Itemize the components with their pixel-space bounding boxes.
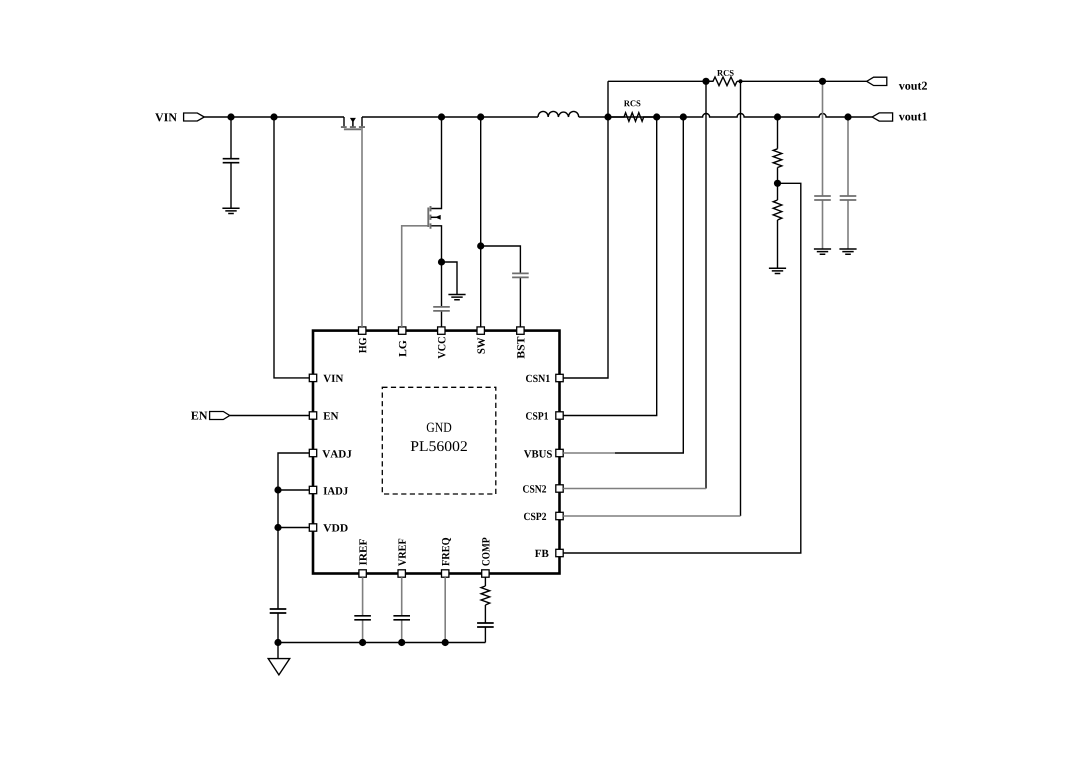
- wire Q2 drain from SW rail: [431, 117, 442, 209]
- node dot inductor output: [604, 113, 611, 120]
- capacitor VDD: [270, 609, 287, 613]
- resistor feedback divider lower: [773, 200, 782, 220]
- wire LG gate line: [402, 226, 429, 327]
- wire Q1 source lead: [361, 117, 363, 126]
- wire VREF cap branch: [401, 577, 403, 642]
- connector vout1: [872, 113, 892, 121]
- pin label CSP2: [524, 513, 546, 520]
- IC U1 internal dashed GND box: [382, 387, 496, 494]
- pin CSP1: [556, 412, 563, 419]
- pin VBUS: [556, 449, 563, 456]
- capacitor input (VIN): [223, 159, 240, 163]
- transistor Q2 low-side MOSFET: [428, 206, 440, 229]
- ground VCC stub: [448, 295, 465, 300]
- capacitor COMP: [477, 623, 494, 627]
- pin label VDD: [323, 524, 347, 531]
- pin CSP2: [556, 512, 563, 519]
- wire divider top: [777, 117, 779, 268]
- ground feedback divider: [769, 268, 786, 273]
- label vout1: [899, 112, 927, 120]
- node dot gnd bus VREF: [398, 639, 405, 646]
- pin FREQ: [442, 570, 449, 577]
- wire node VBUS: [615, 117, 683, 453]
- pin VDD: [309, 524, 316, 531]
- wire node CSN2 vertical: [705, 81, 707, 488]
- wire VADJ vertical: [278, 453, 309, 643]
- wire ground triangle stem: [277, 643, 279, 659]
- pin label VBUS: [524, 450, 552, 457]
- wire CSP2 pin wire: [563, 515, 740, 517]
- pin VREF: [398, 570, 405, 577]
- node dot VIN-pin junction: [270, 113, 277, 120]
- pin label COMP: [482, 538, 489, 566]
- wire node CSP1: [563, 117, 657, 416]
- connector VIN: [184, 113, 205, 121]
- node dot divider mid: [774, 180, 781, 187]
- pin IREF: [359, 570, 366, 577]
- node dot IADJ junction: [274, 486, 281, 493]
- node dot vout2 RCS left: [702, 78, 709, 85]
- pin label IREF: [359, 539, 366, 565]
- label VIN: [155, 113, 177, 121]
- ground input cap: [222, 208, 239, 213]
- pin VADJ: [309, 449, 316, 456]
- pin label CSN2: [523, 485, 546, 492]
- wire Q2 source to VCC: [431, 226, 442, 327]
- resistor feedback divider upper: [773, 149, 782, 168]
- wire FB feedback: [563, 183, 801, 553]
- capacitor VCC decoupling: [433, 307, 450, 311]
- wire VBUS gray segment: [563, 452, 615, 454]
- IC U1 PL56002 body: [313, 331, 560, 574]
- pin VCC: [438, 327, 445, 334]
- pin label BST: [517, 337, 524, 359]
- node dot gnd bus left: [274, 639, 281, 646]
- node dot gnd bus FREQ: [442, 639, 449, 646]
- wire VIN rail: [204, 116, 344, 118]
- pin SW: [477, 327, 484, 334]
- wire vout1 filter cap branch: [847, 117, 849, 249]
- node dot vout2 RCS right (small): [738, 79, 742, 83]
- pin CSN1: [556, 374, 563, 381]
- node dot vout1 cap junction: [844, 113, 851, 120]
- pin label HG: [359, 338, 366, 353]
- wire bottom ground bus: [278, 642, 485, 644]
- pin LG: [399, 327, 406, 334]
- inductor L1: [538, 111, 579, 117]
- pin label CSP1: [526, 412, 548, 419]
- IC U1 label GND: [427, 423, 452, 432]
- wire IREF cap branch: [362, 577, 364, 642]
- node dot VIN-cap junction: [227, 113, 234, 120]
- transistor Q1 high-side MOSFET: [341, 118, 365, 129]
- pin HG: [359, 327, 366, 334]
- capacitor vout1 filter: [840, 196, 857, 200]
- capacitor VREF: [393, 616, 410, 620]
- pin label VREF: [398, 539, 405, 566]
- pin label VCC: [438, 337, 445, 358]
- ground triangle (signal gnd): [268, 659, 290, 675]
- pin VIN: [309, 374, 316, 381]
- connector vout2: [867, 77, 887, 85]
- node dot BST branch: [477, 242, 484, 249]
- node dot VBUS junction: [680, 113, 687, 120]
- wire EN: [230, 415, 310, 417]
- pin CSN2: [556, 485, 563, 492]
- node dot VCC-ground stub: [438, 258, 445, 265]
- resistor COMP: [481, 586, 490, 605]
- pin label FB: [535, 550, 549, 557]
- capacitor vout2 filter: [814, 196, 831, 200]
- wire node CSP2 vertical: [740, 81, 742, 516]
- wire Q1 drain lead: [343, 117, 345, 126]
- wire CSN2 pin wire: [563, 488, 706, 490]
- pin label VIN: [323, 375, 343, 382]
- resistor RCS (vout1 sense): [608, 113, 657, 122]
- resistor RCS (vout2 sense): [706, 77, 737, 86]
- wire HG gate line: [361, 126, 363, 327]
- wire vout2 filter cap branch: [822, 81, 824, 249]
- label vout2: [899, 82, 927, 90]
- wire SW pin branch: [480, 117, 482, 327]
- node dot gnd bus IREF: [359, 639, 366, 646]
- wire input cap branch: [230, 117, 232, 208]
- ground vout2 cap: [814, 249, 831, 254]
- pin EN: [309, 412, 316, 419]
- pin FB: [556, 549, 563, 556]
- node dot divider top: [774, 113, 781, 120]
- ground vout1 cap: [839, 249, 856, 254]
- capacitor BST bootstrap: [512, 273, 529, 277]
- wire COMP branch: [484, 577, 486, 642]
- wire BST bootstrap branch: [481, 246, 521, 327]
- wire VDD: [278, 527, 309, 529]
- pin label SW: [477, 338, 484, 354]
- wire vout1 rail with hops: [579, 114, 873, 117]
- wire vout2 top line right: [737, 80, 867, 82]
- label EN: [191, 412, 207, 420]
- pin label EN: [323, 412, 338, 419]
- IC U1 label PL56002: [411, 441, 467, 451]
- label RCS (vout2 sense): [717, 70, 733, 76]
- node dot SW-Q2 junction: [438, 113, 445, 120]
- pin label LG: [399, 341, 406, 357]
- label RCS (vout1 sense): [624, 100, 640, 106]
- pin label IADJ: [324, 487, 348, 494]
- pin COMP: [482, 570, 489, 577]
- wire SW rail: [362, 116, 538, 118]
- node dot SW-pin junction: [477, 113, 484, 120]
- pin label CSN1: [526, 375, 550, 382]
- pin BST: [517, 327, 524, 334]
- wire VCC ground stub: [442, 262, 458, 295]
- pin label VADJ: [322, 450, 351, 457]
- wire IADJ: [278, 489, 309, 491]
- wire FREQ branch: [444, 577, 446, 642]
- connector EN: [210, 412, 230, 420]
- pin IADJ: [309, 486, 316, 493]
- node dot CSP1 junction: [653, 113, 660, 120]
- node dot VDD junction: [274, 524, 281, 531]
- capacitor IREF: [354, 616, 371, 620]
- wire vout2 top line left: [608, 80, 713, 82]
- node dot vout2 cap junction: [819, 78, 826, 85]
- wire VIN pin branch: [274, 117, 309, 378]
- wire node CSN1: [563, 81, 608, 378]
- pin label FREQ: [442, 538, 451, 566]
